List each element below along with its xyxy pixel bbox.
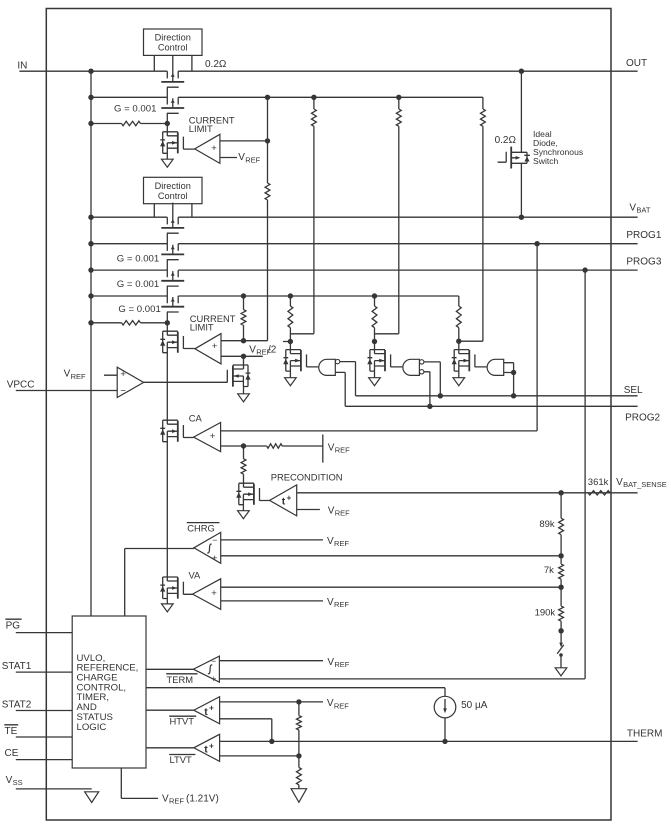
svg-text:+: + [210,431,216,442]
svg-text:PG: PG [6,620,21,631]
svg-text:V: V [328,506,335,517]
svg-text:89k: 89k [539,519,555,530]
svg-text:REF: REF [334,701,349,710]
svg-text:REF: REF [335,446,350,455]
svg-text:STAT1: STAT1 [2,661,32,672]
svg-text:V: V [249,344,256,355]
svg-text:V: V [64,369,71,380]
svg-text:0.2Ω: 0.2Ω [205,59,227,70]
svg-text:CHRG: CHRG [187,522,215,533]
svg-text:+: + [120,369,126,380]
svg-text:THERM: THERM [627,729,663,740]
svg-text:IN: IN [17,61,27,72]
svg-text:(1.21V): (1.21V) [186,794,219,805]
svg-text:BAT_SENSE: BAT_SENSE [623,480,667,489]
svg-text:G = 0.001: G = 0.001 [117,279,159,290]
svg-text:+: + [209,741,214,750]
svg-text:SEL: SEL [624,385,643,396]
svg-text:V: V [327,657,334,668]
svg-text:−: − [211,656,216,666]
svg-text:V: V [6,775,13,786]
svg-text:361k: 361k [588,477,609,488]
svg-text:REF: REF [245,155,260,164]
svg-text:CE: CE [5,748,19,759]
svg-text:Direction: Direction [155,181,191,191]
svg-text:LTVT: LTVT [170,754,192,765]
svg-text:0.2Ω: 0.2Ω [495,135,517,146]
svg-text:HTVT: HTVT [170,715,195,726]
svg-text:TERM: TERM [167,674,194,685]
svg-text:Control: Control [158,43,188,53]
svg-text:V: V [162,794,169,805]
svg-text:t: t [282,496,286,508]
svg-text:V: V [327,536,334,547]
svg-text:−: − [212,535,217,545]
svg-text:STAT2: STAT2 [2,700,32,711]
svg-text:+: + [211,143,217,154]
svg-text:t: t [204,744,208,756]
svg-text:V: V [238,152,245,163]
svg-text:V: V [328,442,335,453]
svg-text:BAT: BAT [636,206,650,215]
svg-text:SS: SS [13,778,23,787]
svg-text:190k: 190k [535,607,556,618]
svg-text:REF: REF [334,660,349,669]
svg-text:+: + [209,704,214,713]
svg-text:REF: REF [335,509,350,518]
svg-text:7k: 7k [544,565,554,576]
svg-text:CA: CA [189,413,203,424]
svg-text:REF: REF [169,797,184,806]
svg-text:Control: Control [158,191,188,201]
svg-text:50 µA: 50 µA [461,700,488,711]
svg-text:/2: /2 [268,344,277,355]
svg-text:TE: TE [5,726,18,737]
svg-text:+: + [212,341,218,352]
svg-text:+: + [212,553,217,563]
svg-text:REF: REF [71,372,86,381]
svg-text:VPCC: VPCC [7,379,35,390]
svg-text:G = 0.001: G = 0.001 [118,304,160,315]
svg-text:REF: REF [334,539,349,548]
svg-text:Direction: Direction [155,33,191,43]
svg-text:LIMIT: LIMIT [190,322,214,333]
svg-text:+: + [211,588,217,599]
svg-text:LIMIT: LIMIT [189,123,213,134]
svg-text:Switch: Switch [533,156,559,166]
svg-text:V: V [327,597,334,608]
svg-text:G = 0.001: G = 0.001 [114,104,156,115]
svg-text:G = 0.001: G = 0.001 [117,254,159,265]
svg-text:V: V [327,698,334,709]
svg-text:PRECONDITION: PRECONDITION [271,472,343,483]
svg-text:VA: VA [189,570,202,581]
svg-text:REF: REF [334,600,349,609]
svg-text:−: − [120,386,126,397]
svg-text:+: + [211,674,216,684]
svg-text:LOGIC: LOGIC [77,722,107,733]
svg-text:PROG3: PROG3 [626,257,661,268]
svg-text:V: V [616,477,623,488]
svg-text:V: V [629,203,636,214]
svg-text:PROG1: PROG1 [626,230,661,241]
svg-text:OUT: OUT [626,58,647,69]
svg-text:+: + [287,493,292,502]
svg-text:PROG2: PROG2 [625,412,660,423]
svg-text:t: t [204,706,208,718]
